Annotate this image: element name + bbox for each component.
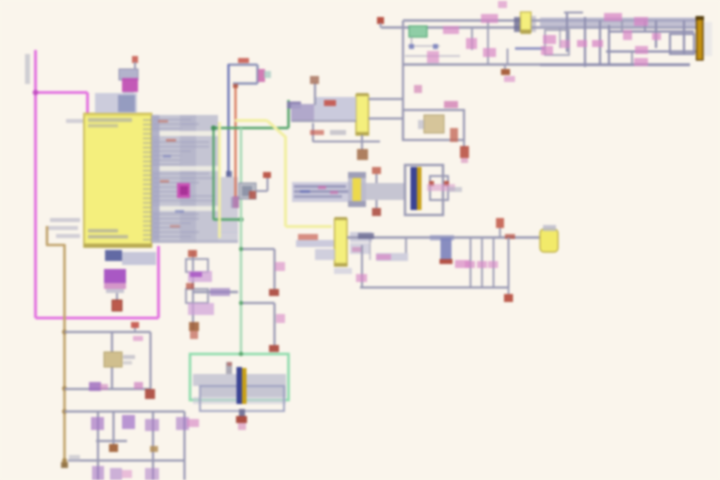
R6 value text 2 — [123, 361, 132, 365]
resistor R10 blue end B — [433, 44, 438, 49]
wire vert x622 — [621, 21, 623, 32]
crystal X1 gold bar — [242, 368, 247, 404]
net label red under U3 — [310, 130, 324, 135]
wire blue vertical — [227, 64, 229, 176]
capacitor C20 wide blue — [441, 238, 452, 260]
wire vert x609 — [608, 25, 610, 65]
pink label cluster 2 — [634, 17, 648, 26]
wire under U3 left drop — [312, 123, 314, 142]
connector J1 gold bar — [697, 17, 704, 60]
slab light gap 3 — [152, 206, 218, 211]
Y1 pink label — [444, 101, 458, 108]
wire vert x507 — [507, 49, 509, 65]
wire mic pin down — [376, 200, 378, 208]
wire box1 right side — [149, 332, 151, 389]
transistor Q1 body — [119, 69, 138, 80]
wire D1 to C10 — [116, 293, 118, 301]
wire U3 bottom stub — [361, 135, 363, 150]
bus blob left of U3 — [291, 104, 314, 122]
IC U3 RF body — [356, 95, 369, 135]
R30 pink label rows — [188, 271, 212, 282]
diode D6 purple body — [92, 466, 104, 480]
slab light gap 1 — [152, 131, 218, 136]
capacitor C8 red body — [460, 146, 469, 158]
wire box2 col1 — [97, 412, 99, 480]
teal mark right of loop — [264, 71, 271, 78]
resistor R6 beige body — [104, 352, 122, 367]
wire loop top — [229, 63, 258, 65]
U3 bottom edge — [356, 132, 369, 136]
pin red cap above J2 — [263, 172, 271, 178]
wire pin P3 stub — [380, 23, 382, 28]
pink label x481 — [481, 14, 498, 23]
pink label x356 — [356, 274, 367, 282]
wire to C8 — [463, 140, 465, 148]
wire box1 bottom rail — [65, 388, 151, 390]
diode D2 purple body — [91, 417, 104, 430]
crystal Y1 loop box — [403, 110, 464, 140]
pink mark x488 — [488, 261, 498, 268]
wire branch A vertical — [273, 249, 275, 289]
J2 inner dark — [242, 186, 252, 196]
wire box under X1 — [200, 386, 284, 411]
wire VBAT bottom run — [36, 317, 159, 320]
wire vert x370 — [369, 239, 371, 260]
C23 pink label — [276, 314, 285, 323]
U6 pink fleck — [352, 247, 362, 252]
label block below U1 — [122, 252, 156, 265]
C15 pink label — [504, 76, 515, 82]
MK1 gold bar — [417, 167, 422, 210]
wire VBAT net vertical left — [34, 50, 37, 318]
wire vert x656 — [655, 21, 657, 49]
pink label cluster 1 — [604, 13, 622, 21]
wire box2 right side — [183, 412, 185, 480]
Q1 gray lower mark — [123, 92, 134, 99]
wire box1 mid upper — [111, 332, 113, 352]
wire VBAT drop into U1 — [86, 93, 89, 115]
R31 pink label rows — [188, 303, 214, 315]
capacitor C12 brown body — [109, 444, 118, 452]
wire yellow bottom run — [286, 225, 333, 228]
wire vert x488 — [487, 21, 489, 65]
capacitor C21 red cap — [504, 294, 513, 302]
capacitor C11 red body — [145, 389, 155, 399]
X1 text row 1 — [193, 374, 286, 386]
pink label cluster 11 — [541, 46, 553, 55]
wire pin riser x315 — [314, 82, 316, 105]
J1 dark top — [696, 16, 705, 20]
J1 right faint label — [704, 22, 712, 56]
wire box left cluster — [545, 30, 569, 55]
wire tan elbow — [46, 244, 65, 247]
wire antenna bus — [347, 236, 541, 238]
wire vert x406 — [405, 238, 407, 254]
wire pin riser — [267, 177, 269, 191]
node mint entry junction — [239, 352, 243, 356]
node tan junction D — [62, 458, 67, 463]
R30 purple fleck — [190, 272, 202, 277]
D5 pink label — [187, 419, 199, 427]
U6 right label 2 — [350, 243, 370, 254]
capacitor C22 red cap — [269, 289, 279, 296]
wire tan net from U1 — [46, 226, 49, 245]
wire thin row y56 — [405, 55, 460, 57]
wire resistor row — [408, 45, 440, 47]
pink label right box1 bottom — [134, 382, 143, 389]
X1 top pin red — [227, 362, 232, 366]
wire mint vertical long — [240, 128, 242, 353]
node mint junction B — [239, 301, 243, 305]
pink label cluster 7 — [635, 46, 648, 54]
slab bottom right extension — [218, 232, 238, 243]
wire box right cluster — [670, 34, 694, 54]
IC U1 top edge — [84, 114, 152, 116]
U1 designator text — [88, 118, 132, 122]
slab purple fleck — [231, 197, 239, 208]
regulator U4 teal body — [409, 26, 427, 37]
slab light gap 2 — [152, 166, 218, 171]
component D1 purple body — [104, 269, 126, 283]
U1 left pin label 2 — [48, 226, 78, 230]
capacitor C10 polarized — [112, 300, 122, 311]
wire mic pin up — [376, 174, 378, 183]
U1 pin label rows — [153, 119, 191, 121]
component pink in slab — [177, 183, 190, 198]
U1 top-left label — [66, 119, 83, 123]
wire vert x632 — [631, 52, 633, 66]
wire vert x560 — [559, 28, 561, 49]
wire purple stub at green top — [287, 102, 301, 109]
U6 top edge — [335, 217, 348, 220]
D1 pink label — [104, 283, 126, 289]
capacitor C23 red cap — [269, 345, 279, 352]
red mark on antenna bus — [505, 234, 515, 239]
U3 top edge — [356, 93, 369, 96]
IC U1 body — [84, 114, 152, 248]
U5 bottom edge — [521, 30, 532, 35]
wire stack bus y292 — [193, 291, 238, 293]
component R20 red body — [496, 218, 504, 228]
pink label right of U4 — [443, 26, 459, 34]
resistor R10 blue end A — [409, 44, 414, 49]
wire stub to C21 — [508, 288, 510, 295]
U1 value text — [88, 124, 118, 128]
node tan junction C — [62, 409, 67, 414]
pink label cluster 6 — [592, 40, 603, 47]
mic bus thick band — [352, 183, 405, 200]
component U2 dark blue body — [105, 250, 122, 261]
X1 bottom pin — [239, 409, 245, 417]
wire vert x585 — [584, 17, 586, 67]
wire pin stub R5 — [134, 326, 136, 333]
wire branch B horizontal — [241, 302, 275, 304]
pink label top edge — [498, 1, 507, 8]
net label GND text — [69, 455, 80, 461]
pink text row MK1 — [427, 184, 455, 191]
C25 pink label — [238, 423, 246, 430]
node VBAT junction — [33, 90, 39, 96]
net label VBAT vertical text — [25, 54, 30, 84]
C5 top cap — [348, 172, 366, 178]
wire horiz y51 — [606, 50, 697, 52]
capacitor C24 brown cap — [189, 322, 199, 331]
gray text MK1 — [448, 187, 462, 192]
wire loop bottom — [233, 82, 258, 84]
U1 left pin label — [50, 218, 80, 222]
C14 pink label — [466, 38, 477, 49]
wire yellow diagonal — [267, 121, 286, 138]
U1 pin wire slab base — [152, 115, 219, 243]
U6 bottom edge — [335, 263, 348, 267]
wire blue segment y48 — [515, 47, 545, 49]
pink label cluster 4 — [652, 33, 661, 40]
R5 pink label — [133, 336, 143, 341]
U6 right label — [350, 232, 372, 242]
U5 right pins — [531, 16, 536, 32]
slab right extension — [218, 177, 238, 233]
wire yellow second vertical — [218, 122, 221, 238]
IC U1 bottom edge — [84, 244, 152, 248]
J2 red mark — [249, 191, 256, 199]
capacitor C5 frame — [348, 172, 366, 207]
slab darker middle column — [180, 115, 196, 243]
wire loop right — [256, 65, 258, 84]
pin brown cap x315 — [310, 76, 319, 84]
label row antenna mid — [376, 253, 408, 261]
red corner mark right — [444, 181, 449, 186]
wire left stack vertical — [192, 250, 194, 330]
wire box2 bottom rail — [68, 459, 185, 461]
pink label top of crystal box — [414, 85, 422, 93]
pink label cluster 5 — [577, 40, 587, 47]
crystal Y1 body — [424, 115, 444, 133]
wire stub below U4 — [411, 37, 413, 44]
node tan junction A — [62, 330, 67, 335]
component purple on box1 bottom — [89, 382, 101, 391]
U6 left label row — [296, 240, 334, 247]
wire stub to C12 — [113, 441, 115, 445]
pin label above Q1 — [132, 56, 138, 63]
connector P1 label block — [95, 93, 137, 113]
wire vert x645 — [644, 21, 646, 32]
wire box2 col2 — [112, 412, 114, 442]
red corner mark left — [429, 181, 434, 186]
wire green bottom jog — [214, 218, 242, 221]
resistor R30 box — [186, 259, 208, 272]
pin P3 red — [377, 17, 384, 24]
capacitor C5 yellow bar — [353, 178, 362, 201]
wire U3 to crystal top — [369, 98, 404, 100]
wire horiz y65 — [540, 64, 690, 66]
wire J2 to pin — [256, 190, 268, 192]
wire branch A horizontal — [241, 248, 275, 250]
red mark left stack — [186, 283, 194, 289]
blue tint on antenna bus — [430, 235, 454, 241]
red wire bottom fade — [233, 196, 239, 208]
MK1 blue bar — [411, 167, 418, 210]
node mint junction A — [239, 247, 243, 251]
slab pin stub column — [152, 115, 160, 243]
U3 red designator — [324, 100, 336, 106]
wire stub to C15 — [504, 65, 506, 70]
wire vert x684 — [683, 21, 685, 56]
pin red cap mic bottom — [372, 208, 381, 216]
pin red cap left stack — [188, 250, 197, 257]
pink label cluster 3 — [623, 30, 632, 40]
Y1 left leg — [418, 120, 424, 129]
red wire top cap — [233, 84, 238, 88]
connector P1 dark pins — [118, 95, 135, 112]
capacitor C6 brown body — [357, 149, 368, 160]
wire vert x493 — [493, 238, 495, 288]
wire red-orange vertical — [234, 85, 236, 197]
purple blob on stack bus — [210, 288, 230, 296]
U3 left label block — [314, 97, 356, 120]
wire VBAT branch to U1 — [36, 91, 88, 94]
wire top bus C — [403, 63, 690, 65]
wire vert x600 — [599, 21, 601, 66]
wire yellow horizontal — [235, 119, 267, 122]
diode D3 purple body — [122, 415, 135, 429]
C5 bottom cap — [348, 201, 366, 207]
capacitor C15 brown — [501, 69, 510, 75]
wire box2 top rail — [65, 410, 185, 412]
wire vert x482 — [481, 238, 483, 288]
pink mark x465 — [465, 261, 475, 268]
wire top bus B — [381, 26, 697, 29]
wire antenna lower rail — [360, 286, 509, 288]
capacitor C7 red marks — [450, 128, 458, 142]
X1 top pin — [226, 362, 232, 374]
top bus thick band — [540, 18, 697, 28]
wire vert x470 — [470, 238, 472, 288]
U6 below label — [334, 268, 352, 274]
wire green horizontal — [214, 127, 289, 130]
wire horiz y12 — [564, 12, 583, 14]
box mint outline X1 module — [190, 354, 289, 400]
component pink core — [180, 186, 188, 195]
U1 right pin number column — [143, 119, 151, 121]
IC U5 small yellow — [521, 12, 532, 32]
pink label cluster 8 — [634, 58, 648, 66]
wire into U3 left — [292, 120, 356, 122]
component pink right of loop — [258, 69, 265, 82]
wire slab bottom bus to teal — [152, 240, 238, 243]
wire branch B vertical — [273, 303, 275, 345]
inductor L1 dark mark — [358, 233, 374, 239]
IC U6 body — [335, 219, 348, 266]
mic section label rows — [294, 185, 346, 188]
wire green down — [212, 128, 214, 220]
blue wire end cap — [226, 171, 232, 177]
wire R20 stub — [499, 228, 501, 238]
X1 text row 2 — [200, 386, 286, 397]
diode D7 purple body — [110, 468, 122, 480]
gray text under U3 — [330, 130, 346, 135]
wire box2 col3 — [152, 412, 154, 480]
pink mark x477 — [477, 261, 487, 268]
wire top bus A — [403, 19, 697, 22]
pink label cluster 9 — [560, 40, 570, 48]
U1 left pin label 3 — [56, 234, 80, 238]
wire Q1 top pin — [134, 62, 136, 70]
U1 bottom-left pin text 2 — [88, 235, 128, 239]
pink label antenna mid — [376, 254, 391, 260]
wire vert x472 — [471, 28, 473, 51]
component tan mark on col3 — [150, 446, 158, 452]
wire VBAT riser right — [157, 246, 160, 318]
microphone MK1 box — [405, 165, 443, 215]
pin R5 red cap — [131, 322, 139, 328]
pink label below R10 — [427, 51, 439, 63]
C20 red bar — [440, 259, 453, 264]
pink label on box1 bottom — [100, 384, 108, 390]
diode D5 purple body — [176, 417, 189, 430]
D1 lower label — [106, 289, 124, 293]
node green junction A — [211, 126, 216, 131]
wire box2 col2 bottom — [96, 440, 127, 442]
node green junction B — [239, 217, 244, 222]
mic section label block — [292, 182, 352, 202]
pin red cap mic top — [372, 167, 381, 174]
resistor R31 box — [186, 289, 208, 303]
U6 red designator — [298, 234, 318, 240]
pink label x483 — [483, 48, 496, 57]
wire box1 top rail — [65, 331, 151, 333]
wire under U3 bottom — [313, 141, 380, 143]
C20 pink label — [455, 260, 471, 268]
wire box1 mid lower — [111, 367, 113, 389]
U5 left pins — [514, 17, 520, 32]
C8 pink label — [461, 158, 468, 163]
wire horiz y31 — [609, 30, 694, 32]
net label red above loop — [238, 58, 249, 63]
antenna E1 yellow blob — [540, 229, 558, 252]
diode D8 purple body — [145, 468, 159, 480]
pink label cluster 10 — [543, 35, 556, 44]
wire vert x508 — [508, 238, 510, 288]
wire vert x362 — [361, 245, 363, 288]
diode D4 purple body — [145, 419, 159, 431]
wire long vertical x403 — [402, 21, 404, 141]
X1 text row 3 — [193, 397, 286, 404]
wire green riser — [287, 100, 290, 128]
C24 red lower — [190, 331, 198, 339]
node tan junction B — [62, 386, 67, 391]
R6 value text — [123, 355, 135, 359]
pink label bottom row — [122, 470, 132, 478]
U6 left label row 2 — [315, 249, 335, 260]
U1 bottom-left pin text — [88, 229, 118, 233]
wire U3 to crystal bottom — [369, 117, 404, 119]
wire tan vertical long — [63, 244, 66, 467]
wire yellow vertical — [284, 136, 287, 227]
E1 top gray mark — [543, 225, 556, 231]
component box right of MK1 — [430, 176, 448, 200]
transistor Q1 magenta part — [122, 78, 138, 92]
ground tan net end — [61, 462, 68, 468]
connector J2 body — [239, 183, 256, 199]
C22 pink label — [275, 262, 285, 271]
wire vert x567 — [566, 13, 568, 53]
crystal X1 blue bar — [237, 367, 243, 404]
capacitor C25 red cap — [236, 416, 247, 423]
